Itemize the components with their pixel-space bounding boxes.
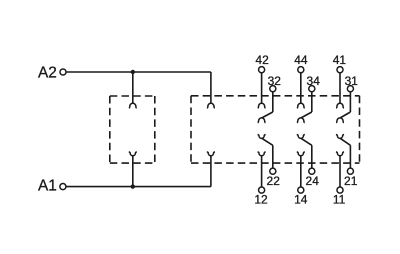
- relay coil socket A1 side: [207, 152, 215, 156]
- wire terminal 42 down: [261, 73, 263, 104]
- terminal 42: [259, 67, 265, 73]
- svg-text:14: 14: [294, 192, 308, 206]
- terminal 21: [347, 168, 353, 174]
- socket contact 14: [297, 152, 305, 156]
- wire terminal 34 down: [311, 92, 313, 112]
- terminal A2: [60, 69, 66, 75]
- wire terminal 24 up: [311, 145, 313, 168]
- svg-text:24: 24: [306, 174, 320, 188]
- relay coil socket A2 side: [207, 103, 215, 108]
- terminal 34: [309, 86, 315, 92]
- wire 24 diagonal: [301, 138, 312, 145]
- wire terminal 22 up: [272, 145, 274, 168]
- socket contact 24: [297, 134, 305, 138]
- wire A1 branch from relay coil: [210, 156, 212, 187]
- socket contact 21: [336, 134, 344, 138]
- svg-text:A1: A1: [38, 178, 57, 195]
- terminal 31: [347, 86, 353, 92]
- terminal 24: [309, 168, 315, 174]
- terminal A1: [60, 184, 66, 190]
- svg-text:21: 21: [344, 174, 358, 188]
- module socket contact A1 side: [129, 152, 137, 156]
- junction dot on A2 wire: [131, 70, 135, 74]
- wire A2 horizontal: [66, 71, 211, 73]
- socket contact 12: [258, 152, 266, 156]
- wire terminal 32 down: [272, 92, 274, 112]
- socket contact 41: [336, 103, 344, 108]
- wire A2 branch into relay coil: [210, 72, 212, 103]
- wire terminal 31 down: [349, 92, 351, 112]
- relay outline (dashed): [191, 96, 360, 163]
- svg-text:22: 22: [267, 174, 281, 188]
- wire 22 diagonal: [262, 138, 273, 145]
- terminal 41: [337, 67, 343, 73]
- svg-text:42: 42: [255, 53, 269, 67]
- wire terminal 12 up: [261, 156, 263, 187]
- wire terminal 44 down: [300, 73, 302, 104]
- socket contact 11: [336, 152, 344, 156]
- wire 32 diagonal: [262, 112, 273, 118]
- wire 21 diagonal: [340, 138, 350, 145]
- wire terminal 41 down: [339, 73, 341, 104]
- wire terminal 21 up: [349, 145, 351, 168]
- socket contact 31: [336, 118, 344, 123]
- wire A2 branch into module: [132, 72, 134, 103]
- terminal 12: [259, 187, 265, 193]
- socket contact 22: [258, 134, 266, 138]
- junction dot on A1 wire: [131, 184, 135, 188]
- svg-text:41: 41: [333, 53, 347, 67]
- plug-in module outline (dashed): [110, 96, 155, 163]
- svg-text:A2: A2: [38, 64, 57, 81]
- wire terminal 14 up: [300, 156, 302, 187]
- terminal 14: [298, 187, 304, 193]
- terminal 32: [270, 86, 276, 92]
- svg-text:44: 44: [294, 53, 308, 67]
- terminal 44: [298, 67, 304, 73]
- socket contact 32: [258, 118, 266, 123]
- svg-text:12: 12: [254, 192, 268, 206]
- wire 34 diagonal: [301, 112, 312, 118]
- wire 31 diagonal: [340, 112, 350, 118]
- wire A1 branch from module: [132, 156, 134, 187]
- wire terminal 11 up: [339, 156, 341, 187]
- socket contact 44: [297, 103, 305, 108]
- socket contact 34: [297, 118, 305, 123]
- terminal 22: [270, 168, 276, 174]
- terminal 11: [337, 187, 343, 193]
- socket contact 42: [258, 103, 266, 108]
- module socket contact A2 side: [129, 103, 137, 108]
- wire A1 horizontal: [66, 186, 211, 188]
- svg-text:11: 11: [333, 192, 346, 206]
